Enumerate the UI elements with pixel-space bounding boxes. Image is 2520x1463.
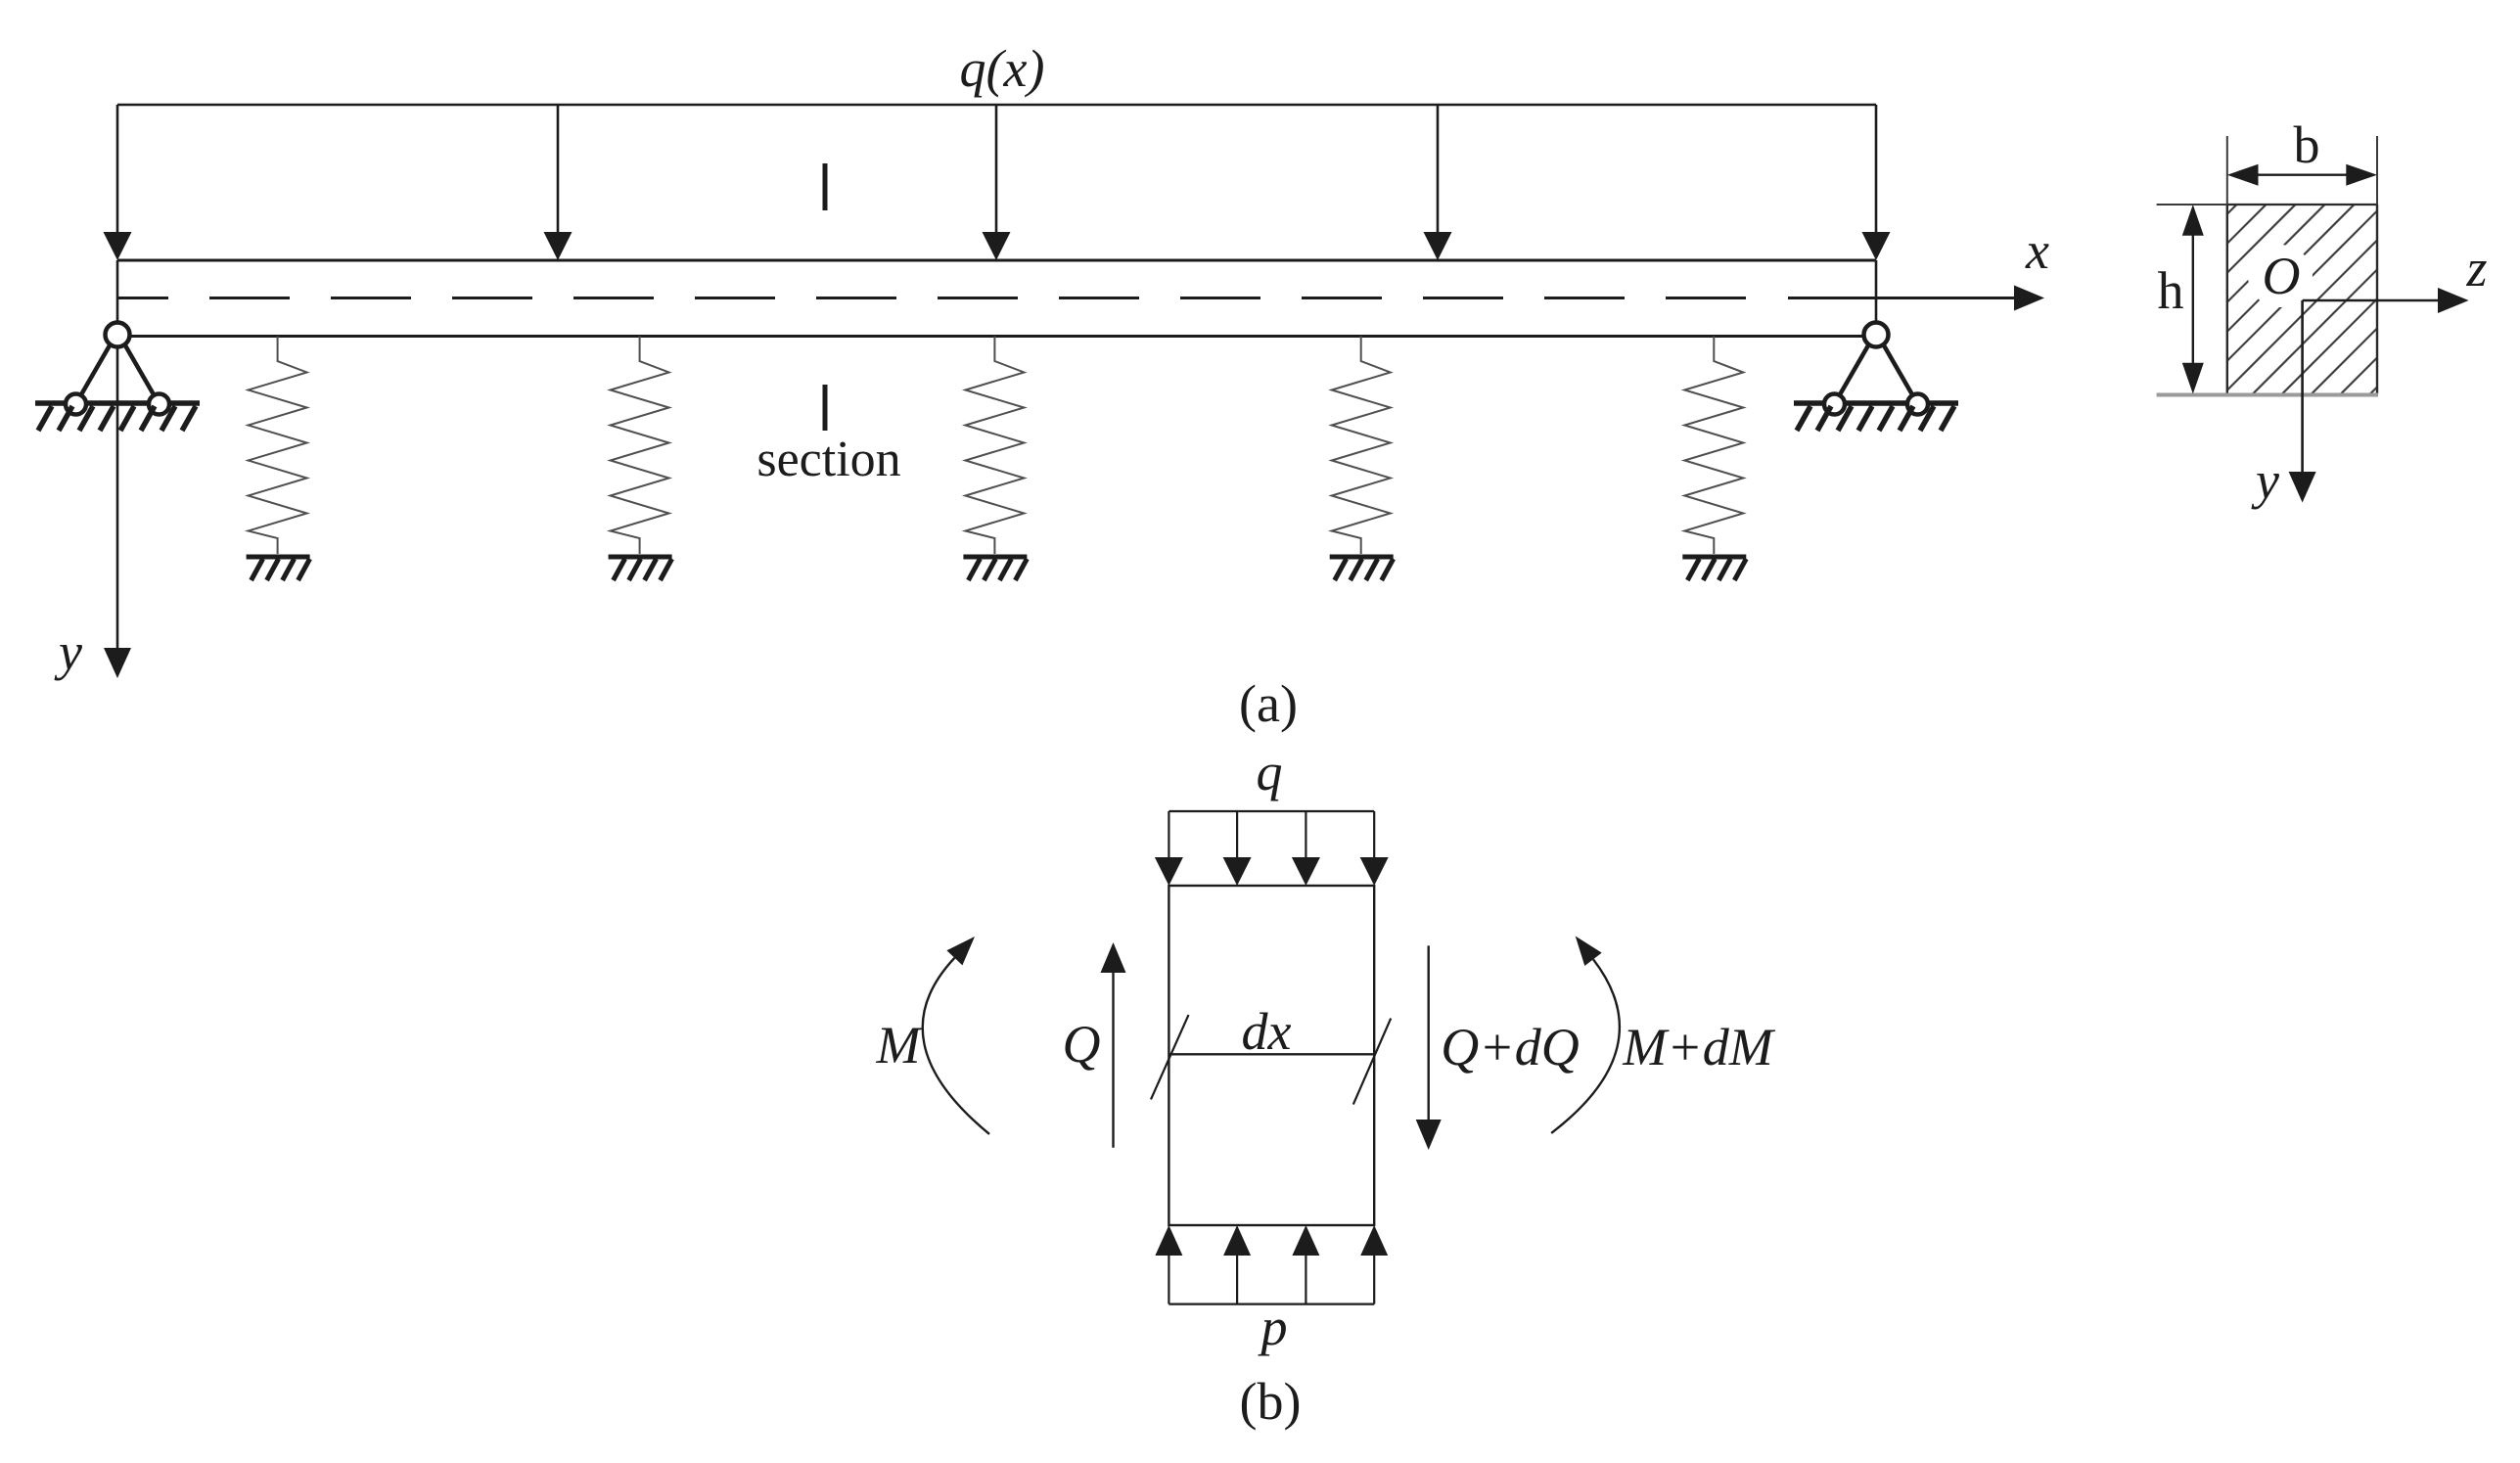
right beam end vertical xyxy=(1875,260,1878,323)
q arrow 2 xyxy=(1223,811,1252,886)
y axis of section xyxy=(2289,300,2316,503)
svg-text:M: M xyxy=(876,1016,924,1074)
ground of spring 4 xyxy=(1330,557,1394,580)
b dimension arrow xyxy=(2227,164,2377,186)
right pin support xyxy=(1794,323,1958,432)
h dimension extension line xyxy=(2157,204,2227,206)
load arrow 2 xyxy=(544,105,573,260)
section tick lower xyxy=(823,385,828,431)
bottom gray line of section xyxy=(2157,393,2378,397)
svg-text:z: z xyxy=(2465,239,2487,297)
svg-text:y: y xyxy=(54,622,82,681)
ground of spring 5 xyxy=(1682,557,1746,580)
spring 1 xyxy=(249,337,307,555)
spring 2 xyxy=(611,337,669,555)
svg-text:Q: Q xyxy=(1063,1015,1101,1074)
svg-text:(a): (a) xyxy=(1239,674,1298,733)
svg-text:q(x): q(x) xyxy=(960,39,1045,98)
h dimension arrow xyxy=(2182,205,2204,394)
white halo for O xyxy=(2248,245,2313,307)
z axis xyxy=(2303,288,2469,313)
moment M curved arrow xyxy=(923,937,989,1134)
dx line xyxy=(1168,1053,1374,1055)
element reaction p bottom line xyxy=(1168,1303,1374,1304)
ground of spring 2 xyxy=(609,557,672,580)
p arrow 3 xyxy=(1292,1225,1319,1304)
beam bottom flange xyxy=(117,335,1876,338)
svg-text:q: q xyxy=(1257,743,1283,801)
b dimension extension lines xyxy=(2226,136,2228,205)
shear force Q+dQ arrow xyxy=(1416,945,1442,1150)
section rect edges xyxy=(2227,204,2377,206)
svg-text:M+dM: M+dM xyxy=(1622,1018,1775,1076)
distributed load top line xyxy=(117,104,1876,107)
beam centerline (dashed) xyxy=(118,297,1748,299)
svg-text:Q+dQ: Q+dQ xyxy=(1441,1018,1579,1076)
spring 5 xyxy=(1684,337,1743,555)
load arrow 1 xyxy=(104,105,132,260)
x axis xyxy=(1788,286,2044,311)
svg-text:h: h xyxy=(2158,261,2184,320)
q arrow 3 xyxy=(1292,811,1320,886)
element distributed load q top line xyxy=(1168,810,1374,812)
y axis xyxy=(104,260,131,678)
svg-text:p: p xyxy=(1258,1298,1288,1356)
left pin support xyxy=(35,323,200,432)
svg-text:b: b xyxy=(2294,115,2320,174)
section tick upper xyxy=(823,163,828,210)
ground of spring 1 xyxy=(247,557,310,580)
svg-text:O: O xyxy=(2263,247,2301,305)
shear force Q arrow xyxy=(1101,942,1126,1148)
svg-text:(b): (b) xyxy=(1240,1372,1302,1431)
svg-text:section: section xyxy=(756,432,900,487)
p arrow 2 xyxy=(1223,1225,1251,1304)
hatched section rectangle xyxy=(2028,185,2520,414)
right cut slash xyxy=(1353,1019,1391,1105)
p arrow 4 xyxy=(1360,1225,1388,1304)
foundation reaction p arrow 1 xyxy=(1155,1225,1182,1304)
q arrow 1 xyxy=(1155,811,1183,886)
spring 3 xyxy=(965,337,1024,555)
beam top flange xyxy=(117,259,1876,262)
element rectangle xyxy=(1168,886,1374,1225)
spring 4 xyxy=(1332,337,1391,555)
svg-text:y: y xyxy=(2251,451,2279,510)
load arrow 4 xyxy=(1424,105,1452,260)
ground of spring 3 xyxy=(963,557,1027,580)
moment M+dM curved arrow xyxy=(1551,937,1620,1133)
left cut slash xyxy=(1151,1015,1189,1099)
svg-text:x: x xyxy=(2025,221,2049,280)
svg-text:dx: dx xyxy=(1242,1002,1292,1061)
load arrow 5 xyxy=(1862,105,1891,260)
load arrow 3 xyxy=(983,105,1011,260)
q arrow 4 xyxy=(1360,811,1389,886)
